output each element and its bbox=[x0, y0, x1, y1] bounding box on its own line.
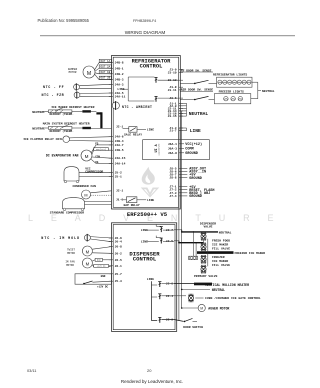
dispenser board right pins J2 bbox=[166, 229, 173, 322]
valve feed wire 1 with neutral bbox=[174, 230, 232, 235]
svg-text:GND: GND bbox=[101, 275, 106, 278]
valve feed wire 2 bbox=[174, 241, 204, 244]
svg-text:COMM: COMM bbox=[185, 148, 193, 152]
svg-text:GROUND: GROUND bbox=[189, 195, 202, 199]
svg-text:J6-1: J6-1 bbox=[115, 265, 122, 268]
svg-text:CONDENSER FAN: CONDENSER FAN bbox=[73, 185, 97, 188]
svg-text:J4A-7: J4A-7 bbox=[115, 144, 124, 147]
dispenser relay contact to J2-5 bbox=[141, 236, 174, 244]
svg-text:M: M bbox=[86, 261, 90, 266]
dispenser relay contact to J2-4 bbox=[158, 294, 174, 299]
svg-text:J4A-6: J4A-6 bbox=[115, 136, 124, 139]
svg-text:M: M bbox=[87, 71, 91, 77]
svg-text:J2-6: J2-6 bbox=[166, 283, 173, 286]
svg-text:FILL VALVE: FILL VALVE bbox=[212, 264, 230, 267]
svg-text:CUBE /CRUSHED ICE GATE CONTROL: CUBE /CRUSHED ICE GATE CONTROL bbox=[205, 296, 261, 300]
svg-text:CONTROL: CONTROL bbox=[140, 64, 163, 70]
svg-text:Publication No: 5995589055: Publication No: 5995589055 bbox=[38, 18, 90, 23]
svg-text:VALVE: VALVE bbox=[203, 225, 212, 228]
dispenser relay contact to J2-6 bbox=[158, 282, 174, 287]
svg-text:NEUTRAL: NEUTRAL bbox=[262, 90, 275, 93]
svg-text:MAIN SYSTEM DEFROST HEATER: MAIN SYSTEM DEFROST HEATER bbox=[43, 122, 90, 125]
lights neutral wire bbox=[251, 82, 275, 99]
svg-text:J2-9: J2-9 bbox=[166, 319, 173, 322]
svg-text:J7-4: J7-4 bbox=[169, 195, 176, 198]
NTC - FZR thermistor bbox=[42, 91, 112, 98]
refrigerator board left pins J4A/J4B mid group bbox=[109, 136, 126, 166]
freezer ice maker bold feed bbox=[197, 252, 265, 255]
primary valve solenoid V4 bbox=[201, 265, 203, 267]
svg-text:J3-15: J3-15 bbox=[168, 115, 177, 118]
svg-text:J1-6: J1-6 bbox=[116, 199, 123, 202]
header rule bbox=[40, 35, 295, 37]
UI A user interface box bbox=[143, 140, 210, 160]
FF door switch sense wire bbox=[180, 69, 213, 72]
svg-text:J4B-4: J4B-4 bbox=[115, 140, 124, 143]
svg-text:M: M bbox=[86, 249, 90, 254]
svg-text:MOTOR: MOTOR bbox=[67, 252, 75, 255]
freezer fill valve label bbox=[212, 256, 230, 267]
svg-text:Rendered by LeadVenture, Inc.: Rendered by LeadVenture, Inc. bbox=[121, 379, 183, 384]
svg-text:GROUND: GROUND bbox=[185, 152, 198, 156]
refrigerator control board outline bbox=[112, 56, 181, 210]
svg-text:GAP RELAY: GAP RELAY bbox=[124, 204, 140, 207]
svg-text:AUGER MOTOR: AUGER MOTOR bbox=[208, 306, 229, 310]
neutral stub cluster bbox=[179, 103, 208, 117]
fresh food fill valve solenoid V2 bbox=[201, 243, 203, 245]
svg-text:NTC - FF: NTC - FF bbox=[43, 86, 64, 90]
svg-text:LINE: LINE bbox=[141, 241, 148, 244]
svg-text:LINE: LINE bbox=[190, 128, 201, 134]
svg-text:J6-5: J6-5 bbox=[115, 259, 122, 262]
svg-text:J6-4: J6-4 bbox=[115, 241, 122, 244]
svg-text:J5-3: J5-3 bbox=[115, 280, 122, 283]
dispenser valve solenoid V1 bbox=[201, 232, 203, 234]
dispenser control board outline bbox=[112, 223, 177, 332]
valve interconnect wires bbox=[193, 231, 208, 266]
svg-text:J6-2: J6-2 bbox=[115, 252, 122, 255]
svg-text:J4A-14: J4A-14 bbox=[115, 162, 126, 165]
vertical mullion heater bbox=[174, 283, 249, 287]
svg-text:STANDARD COMPRESSOR: STANDARD COMPRESSOR bbox=[50, 211, 84, 214]
J7 programming connector pins bbox=[169, 186, 214, 200]
svg-text:J6A-1: J6A-1 bbox=[168, 143, 177, 146]
relay contact K2 to J3-6 bbox=[154, 96, 179, 101]
svg-text:LINE: LINE bbox=[147, 199, 154, 202]
IM fan motor bbox=[65, 258, 111, 268]
svg-text:J4A-11: J4A-11 bbox=[115, 96, 126, 99]
svg-text:OUT 1A: OUT 1A bbox=[101, 60, 111, 63]
svg-text:J2-4: J2-4 bbox=[166, 295, 173, 298]
svg-text:LINE: LINE bbox=[147, 278, 154, 281]
ice maker defrost heater circuit bbox=[32, 106, 96, 116]
svg-text:J6A-3: J6A-3 bbox=[168, 147, 177, 150]
freezer fill valve solenoid V3 bbox=[201, 255, 203, 257]
damper motor bbox=[68, 66, 95, 78]
svg-text:J3-10: J3-10 bbox=[168, 71, 177, 74]
svg-text:ICE MAKER DEFROST HEATER: ICE MAKER DEFROST HEATER bbox=[51, 106, 94, 109]
NTC - FF thermistor bbox=[43, 83, 112, 90]
svg-text:M: M bbox=[84, 194, 87, 198]
FF door switch bbox=[180, 80, 216, 84]
evaporator fan wires FG / VCC(+12) / CON / VG bbox=[91, 142, 111, 164]
DC evaporator fan motor bbox=[46, 150, 92, 161]
svg-text:LINE: LINE bbox=[117, 88, 124, 91]
svg-text:CONTROL: CONTROL bbox=[133, 255, 157, 262]
svg-text:OUT 1B: OUT 1B bbox=[101, 71, 111, 74]
svg-text:M: M bbox=[85, 154, 89, 159]
svg-text:OUT 2B: OUT 2B bbox=[101, 77, 111, 80]
svg-text:LINE: LINE bbox=[141, 229, 148, 232]
auger motor bbox=[181, 304, 230, 311]
dispenser internal LINE rail bbox=[147, 278, 157, 320]
main system defrost heater circuit bbox=[32, 122, 111, 133]
svg-text:J6-8: J6-8 bbox=[115, 246, 122, 249]
svg-text:FPHB2899LF4: FPHB2899LF4 bbox=[133, 19, 156, 23]
NTC - IM MOLD thermistor bbox=[41, 234, 111, 242]
svg-text:J3-6: J3-6 bbox=[169, 97, 176, 100]
svg-text:J6A-8: J6A-8 bbox=[168, 152, 177, 155]
svg-text:VCC(+12): VCC(+12) bbox=[96, 148, 106, 151]
svg-text:LINE: LINE bbox=[147, 128, 154, 131]
svg-text:VERTICAL MULLION HEATER: VERTICAL MULLION HEATER bbox=[205, 283, 249, 287]
FZR door switch sense wire bbox=[180, 89, 213, 92]
dispenser board left pins J6/J5 bbox=[109, 237, 122, 283]
svg-text:NEUTRAL: NEUTRAL bbox=[212, 288, 225, 292]
svg-text:LEADVENTURE: LEADVENTURE bbox=[158, 144, 161, 156]
twist motor bbox=[67, 246, 111, 256]
refrigerator board right pins J3/J1/J2 bbox=[168, 68, 183, 132]
svg-text:GROUND: GROUND bbox=[189, 177, 202, 181]
svg-text:FRESH FOOD: FRESH FOOD bbox=[212, 239, 230, 242]
ice level sensor box with switch bbox=[75, 274, 112, 289]
svg-text:DEFROST (THERM.: DEFROST (THERM. bbox=[50, 129, 74, 133]
svg-text:J1-7: J1-7 bbox=[169, 130, 176, 133]
svg-text:OUT 2A: OUT 2A bbox=[101, 65, 111, 68]
svg-text:DC EVAPORATOR FAN: DC EVAPORATOR FAN bbox=[46, 154, 79, 158]
damper motor wires OUT 1A / OUT 2A / OUT 1B / OUT 2B bbox=[95, 59, 112, 79]
VCC compressor bbox=[64, 167, 112, 183]
svg-text:FREEZER LIGHTS: FREEZER LIGHTS bbox=[219, 91, 244, 94]
svg-text:J4B-2: J4B-2 bbox=[115, 73, 124, 76]
line bus rail bbox=[178, 128, 180, 321]
condenser fan motor bbox=[73, 185, 112, 199]
svg-text:NEUTRAL: NEUTRAL bbox=[219, 232, 232, 235]
svg-text:J2-1: J2-1 bbox=[116, 125, 123, 128]
svg-text:CON: CON bbox=[95, 155, 100, 158]
svg-text:PRIMARY VALVE: PRIMARY VALVE bbox=[194, 275, 218, 278]
defrost heater bold junction wire bbox=[96, 112, 101, 128]
neutral bus rail bbox=[181, 111, 183, 308]
svg-text:ICE MAKER: ICE MAKER bbox=[212, 243, 228, 246]
svg-text:FILL VALVE: FILL VALVE bbox=[212, 247, 230, 250]
svg-text:WIRING DIAGRAM: WIRING DIAGRAM bbox=[125, 30, 166, 35]
sale relay bbox=[116, 125, 154, 136]
svg-text:REFRIGERATOR LIGHTS: REFRIGERATOR LIGHTS bbox=[213, 74, 247, 77]
relay contact K1 to J3-12 bbox=[154, 77, 179, 82]
refrigerator lights bbox=[213, 74, 252, 88]
svg-text:MOTOR: MOTOR bbox=[66, 264, 74, 267]
svg-text:FREEZER: FREEZER bbox=[212, 256, 225, 259]
svg-text:J4B-1: J4B-1 bbox=[115, 67, 124, 70]
svg-text:J3-11: J3-11 bbox=[168, 89, 177, 92]
svg-text:M: M bbox=[200, 307, 203, 311]
neutral tap bbox=[181, 288, 225, 292]
refrigerator board left pins J4B/J4A top group bbox=[109, 62, 126, 99]
svg-text:DOOR SWITCH: DOOR SWITCH bbox=[183, 326, 203, 329]
svg-text:J5-2: J5-2 bbox=[115, 172, 122, 175]
svg-text:20: 20 bbox=[147, 368, 152, 373]
svg-text:NEUTRAL: NEUTRAL bbox=[189, 111, 209, 117]
svg-text:J6-6: J6-6 bbox=[115, 237, 122, 240]
svg-text:MOTOR: MOTOR bbox=[69, 71, 77, 74]
svg-text:ERF2500++ V5: ERF2500++ V5 bbox=[127, 211, 168, 218]
svg-text:ICE MAKER: ICE MAKER bbox=[212, 260, 228, 263]
freezer lights bbox=[214, 91, 250, 104]
standard compressor bbox=[50, 198, 112, 215]
gap relay bbox=[116, 190, 154, 207]
svg-text:+12V DC: +12V DC bbox=[97, 285, 109, 288]
internal LINE label and feed bracket bbox=[117, 77, 154, 101]
cube/crushed ice gate control solenoid bbox=[174, 294, 261, 303]
refrigerator board left pins J5 bbox=[109, 172, 122, 179]
svg-text:NTC - FZR: NTC - FZR bbox=[42, 94, 65, 98]
FZR door switch bbox=[180, 96, 214, 100]
line stub cluster bbox=[179, 128, 201, 134]
svg-text:VCC(+12): VCC(+12) bbox=[185, 142, 202, 147]
svg-text:J4A-3: J4A-3 bbox=[115, 83, 124, 86]
J8 service connector pins bbox=[169, 167, 206, 181]
svg-text:03/11: 03/11 bbox=[27, 368, 36, 373]
ice flapper relay coil bbox=[23, 136, 111, 143]
svg-text:J4B-8: J4B-8 bbox=[115, 62, 124, 65]
dispenser door switch bbox=[174, 318, 203, 328]
svg-text:NTC - AMBIENT: NTC - AMBIENT bbox=[122, 105, 152, 109]
svg-text:NTC - IM MOLD: NTC - IM MOLD bbox=[41, 237, 80, 241]
svg-text:J2-1: J2-1 bbox=[116, 190, 123, 193]
svg-text:J5-7: J5-7 bbox=[115, 273, 122, 276]
svg-text:J4B-3: J4B-3 bbox=[115, 79, 124, 82]
svg-text:+12V DC: +12V DC bbox=[97, 265, 106, 268]
NTC - AMBIENT thermistor bbox=[112, 101, 152, 110]
dispenser valve labels bbox=[200, 222, 216, 228]
svg-text:J5-1: J5-1 bbox=[115, 176, 122, 179]
svg-text:FREEZER ICE MAKER: FREEZER ICE MAKER bbox=[235, 252, 266, 255]
svg-text:COMPRESSOR: COMPRESSOR bbox=[85, 171, 103, 174]
svg-text:DEFROST (THERM.: DEFROST (THERM. bbox=[50, 112, 74, 116]
terminal block bbox=[189, 256, 198, 259]
dispenser relay contact to J2-9 bbox=[158, 317, 174, 322]
svg-text:ICE FLAPPER RELAY COIL: ICE FLAPPER RELAY COIL bbox=[23, 138, 63, 141]
watermark LeadVenture flame logo bbox=[141, 167, 159, 198]
svg-text:J4B-5: J4B-5 bbox=[115, 149, 124, 152]
dispenser relay contact to J2-7 bbox=[141, 224, 174, 232]
fresh food fill valve label bbox=[212, 239, 230, 250]
svg-text:SALE RELAY: SALE RELAY bbox=[124, 134, 142, 137]
svg-text:J8-8: J8-8 bbox=[169, 177, 176, 180]
svg-text:J4A-15: J4A-15 bbox=[115, 157, 126, 160]
svg-text:J3-12: J3-12 bbox=[168, 79, 177, 82]
